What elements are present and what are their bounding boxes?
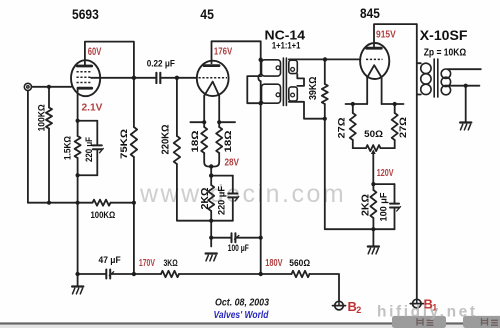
svg-text:28V: 28V	[225, 156, 240, 168]
tube 845 grid dashes	[366, 58, 383, 60]
wire rail 180V segment	[179, 273, 292, 275]
bottom divider line	[0, 322, 500, 324]
wire ground node down	[77, 203, 79, 274]
svg-text:100 μF: 100 μF	[378, 192, 388, 221]
wire 2K 845 bottom	[372, 218, 374, 229]
input jack J1	[24, 83, 31, 90]
terminal B1	[410, 299, 423, 308]
svg-text:Oct. 08, 2003: Oct. 08, 2003	[215, 297, 269, 309]
tube 45 envelope	[197, 61, 229, 96]
wire 27 ohm bottoms	[352, 140, 354, 148]
tube 45 grid dashes	[199, 77, 228, 79]
svg-text:2KΩ: 2KΩ	[360, 194, 371, 216]
resistor 3K rail	[161, 271, 179, 277]
NC-14 secondary series loop	[297, 74, 304, 86]
tube 5693 grid dashes	[77, 72, 92, 83]
wire 2K bottom	[210, 211, 212, 221]
svg-text:220 μF: 220 μF	[217, 186, 228, 215]
svg-text:Zp = 10KΩ: Zp = 10KΩ	[424, 47, 467, 59]
wire speaker output top	[448, 68, 481, 70]
wire 100K grid stem bottom	[48, 129, 50, 203]
tube 845 plate bar	[367, 47, 382, 50]
tube 5693 envelope	[71, 60, 100, 96]
terminal B2	[333, 301, 346, 310]
wire join to box	[210, 167, 212, 176]
X-10SF primary coil loops	[421, 63, 431, 94]
svg-text:60V: 60V	[88, 46, 102, 58]
wire hum pot line	[353, 147, 366, 149]
NC-14 primary winding lower	[262, 84, 281, 103]
wire NC-14 secondary bottom jog	[289, 102, 325, 119]
resistor 18 ohm left	[201, 127, 207, 153]
wire 39K stem top	[324, 59, 326, 84]
wire 5693 screen/plate node to coupling cap	[91, 77, 155, 79]
ground 845 cathode	[368, 247, 379, 254]
capacitor 100uF 45 bypass	[211, 233, 261, 242]
svg-text:176V: 176V	[214, 46, 232, 58]
wire 45 plate up to NC-14	[212, 41, 261, 63]
wire NC-14 primary vertical with hop	[258, 60, 260, 103]
ground speaker output	[460, 123, 471, 130]
NC-14 primary series loop	[247, 76, 261, 103]
resistor 2K 845	[370, 190, 376, 218]
svg-text:5693: 5693	[72, 7, 99, 22]
wire 220K bottom L	[177, 164, 211, 221]
label B2	[348, 299, 362, 315]
svg-text:2: 2	[356, 305, 361, 315]
wire NC-14 bottom down to B+ rail	[260, 103, 262, 274]
svg-text:www.docin.com: www.docin.com	[139, 180, 346, 208]
wire node down	[210, 221, 212, 247]
wire ground rail left	[28, 202, 93, 204]
button register	[463, 316, 500, 328]
wire 45 heater stubs	[190, 121, 204, 123]
wire 39K bottom long drop	[325, 104, 374, 229]
wire 18 ohm stems	[203, 122, 205, 127]
wire 1.5K bottom	[77, 158, 79, 175]
svg-text:18Ω: 18Ω	[190, 130, 201, 152]
potentiometer 50 ohm	[366, 145, 381, 151]
svg-text:27Ω: 27Ω	[337, 117, 348, 138]
resistor 560 ohm rail	[292, 271, 310, 277]
NC-14 primary winding upper	[262, 60, 281, 76]
tube 45 filament	[204, 82, 219, 96]
svg-text:hifidiy.net: hifidiy.net	[377, 304, 478, 321]
wire 220K stem top	[176, 78, 178, 136]
resistor 100K horizontal feedback	[93, 200, 111, 206]
ground 45 cathode	[206, 254, 217, 261]
wire 45 filament legs	[203, 96, 205, 122]
svg-text:915V: 915V	[376, 29, 396, 41]
capacitor 47uF rail bypass	[106, 270, 134, 279]
wire speaker output bottom	[448, 85, 480, 87]
wire 5693 plate up and over	[85, 42, 134, 78]
NC-14 secondary polarity dot upper	[291, 68, 295, 72]
wire 45 cathode box bottom	[211, 220, 233, 222]
svg-text:18Ω: 18Ω	[223, 130, 234, 152]
tube 5693 cathode bar	[78, 87, 92, 90]
svg-text:3KΩ: 3KΩ	[164, 258, 178, 269]
wire rail 170V segment	[134, 273, 161, 275]
wire jack sleeve down	[27, 91, 29, 203]
wire cathode box top	[78, 120, 98, 122]
capacitor 100uF 845 branch	[390, 184, 401, 229]
wire 100K grid stem top	[48, 87, 50, 108]
NC-14 primary polarity dot lower	[276, 93, 280, 97]
NC-14 primary polarity dot upper	[276, 66, 280, 70]
resistor 100K grid leak	[46, 108, 52, 129]
svg-text:2.1V: 2.1V	[82, 102, 103, 114]
wire 27 ohm stems	[352, 104, 354, 113]
wire 45 cathode box top	[211, 175, 233, 177]
resistor 18 ohm right	[216, 127, 222, 153]
tube 845 envelope	[360, 43, 389, 79]
svg-text:2KΩ: 2KΩ	[200, 188, 211, 210]
tube 45 plate bar	[204, 64, 219, 67]
wire cathode node to ground rail	[77, 175, 79, 202]
svg-text:Valves' World: Valves' World	[214, 309, 269, 321]
capacitor 220uF stage1 branch	[93, 121, 104, 176]
wire 5693 cathode down	[77, 89, 79, 120]
wire 75K stem top	[133, 78, 135, 127]
svg-text:180V: 180V	[265, 257, 282, 269]
svg-text:1.5KΩ: 1.5KΩ	[62, 136, 73, 160]
resistor 75K plate load	[131, 127, 137, 157]
svg-text:170V: 170V	[139, 257, 155, 269]
tube 845 filament	[367, 65, 381, 77]
svg-text:0.22 μF: 0.22 μF	[147, 59, 175, 70]
NC-14 secondary winding upper	[289, 60, 298, 73]
svg-text:100KΩ: 100KΩ	[36, 104, 47, 131]
NC-14 secondary polarity dot lower	[291, 93, 295, 97]
wire cathode box bottom	[78, 174, 98, 176]
ground B+ rail left end	[72, 287, 83, 294]
wire 845 cathode to ground	[372, 229, 374, 246]
transformer X-10SF core	[434, 59, 438, 97]
wire OPT primary main vertical down to B1	[416, 24, 418, 299]
wire 845 cathode box bottom	[373, 228, 394, 230]
wire 1.5K stem	[77, 121, 79, 136]
resistor 27 ohm left	[350, 113, 356, 140]
svg-text:75KΩ: 75KΩ	[119, 129, 130, 159]
svg-text:45: 45	[200, 7, 214, 22]
button login	[392, 316, 446, 328]
resistor 220K grid leak 45	[174, 136, 180, 164]
pot wiper arrow	[371, 149, 376, 184]
wire B+ rail: ground node to 47uF	[78, 273, 106, 275]
resistor 27 ohm right	[392, 113, 398, 140]
labels: rotated values	[36, 77, 409, 222]
wire 845 plate up and over to OPT	[374, 24, 417, 47]
wire 75K bottom to rails	[133, 157, 135, 274]
wire 2K 845 stem	[372, 184, 374, 190]
wire NC-14 secondary top to 845 grid	[289, 58, 361, 60]
wire ground rail right	[111, 202, 134, 204]
wire 845 filament legs	[366, 78, 368, 105]
wire jack to 5693 grid	[32, 86, 72, 88]
wire 845 cathode box top	[373, 183, 394, 185]
wire ground stub below node	[77, 274, 79, 286]
svg-text:27Ω: 27Ω	[398, 117, 409, 138]
wire 2K stem	[210, 176, 212, 185]
X-10SF primary stubs	[417, 62, 421, 64]
labels: red voltages	[82, 29, 396, 270]
svg-text:50Ω: 50Ω	[364, 129, 383, 140]
capacitor 0.22uF coupling	[156, 73, 196, 83]
svg-text:100KΩ: 100KΩ	[91, 210, 116, 221]
NC-14 secondary winding lower	[289, 87, 298, 101]
svg-text:120V: 120V	[377, 167, 394, 179]
tube 5693 plate bar	[77, 65, 92, 68]
transformer NC-14 core	[283, 58, 286, 106]
svg-text:47 μF: 47 μF	[99, 255, 121, 266]
X-10SF secondary coil loops	[441, 69, 450, 95]
svg-text:X-10SF: X-10SF	[420, 28, 468, 43]
wire 18 ohm bottoms join	[204, 153, 211, 167]
svg-text:560Ω: 560Ω	[289, 258, 310, 269]
wire output ground drop	[465, 86, 467, 123]
svg-text:1+1:1+1: 1+1:1+1	[272, 41, 301, 51]
svg-text:39KΩ: 39KΩ	[308, 77, 319, 101]
svg-text:220 μF: 220 μF	[84, 137, 95, 162]
svg-text:100 μF: 100 μF	[228, 243, 249, 253]
wire 845 heater stubs	[346, 103, 368, 105]
resistor 1.5K	[75, 136, 81, 158]
label B1	[424, 297, 438, 313]
resistor 2K 45 bias	[208, 185, 214, 211]
capacitor 220uF 45 branch	[228, 176, 239, 221]
resistor 39K	[322, 84, 328, 104]
labels: component values horizontal	[91, 59, 384, 270]
svg-text:220KΩ: 220KΩ	[161, 125, 172, 155]
svg-text:845: 845	[360, 6, 380, 21]
wire rail to B2	[310, 274, 340, 301]
labels: tube names	[72, 6, 468, 59]
